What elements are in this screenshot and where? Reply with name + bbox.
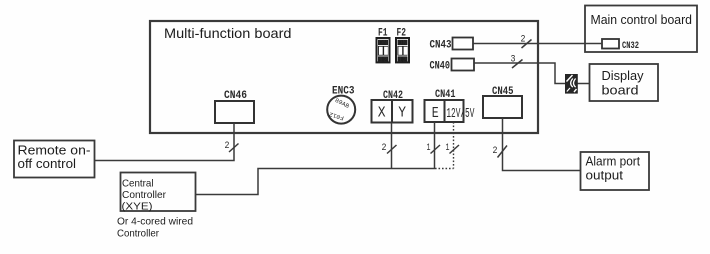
- wire CN46 to remote on-off control: [95, 123, 234, 161]
- wire count marker 2 on CN43 wire: [521, 35, 532, 49]
- svg-text:CN32: CN32: [622, 40, 639, 52]
- svg-text:12: 12: [398, 57, 407, 64]
- connector CN42: [372, 90, 413, 123]
- svg-text:2: 2: [521, 35, 526, 46]
- connector CN46: [215, 90, 254, 123]
- wire count marker 1 on 12V wire: [446, 143, 460, 154]
- svg-text:(XYE): (XYE): [122, 201, 153, 213]
- svg-text:Controller: Controller: [122, 189, 166, 201]
- svg-text:2: 2: [382, 143, 387, 154]
- svg-text:E: E: [432, 105, 439, 122]
- wire CN43 to CN32: [474, 43, 603, 45]
- svg-text:12V/5V: 12V/5V: [446, 107, 475, 122]
- dip switch F1: [377, 28, 390, 64]
- connector CN43: [430, 38, 474, 52]
- wire count marker 2 on CN46 wire: [225, 141, 239, 152]
- svg-text:Multi-function board: Multi-function board: [164, 25, 292, 41]
- alarm port output box: [581, 152, 650, 190]
- svg-text:1: 1: [446, 143, 450, 154]
- svg-text:12: 12: [379, 57, 388, 64]
- svg-text:Main control board: Main control board: [591, 13, 693, 27]
- svg-text:Central: Central: [122, 177, 154, 189]
- connector CN45: [483, 86, 522, 118]
- connector CN40: [430, 59, 475, 73]
- svg-text:X: X: [378, 104, 386, 121]
- wire count marker 3 on CN40 wire: [511, 55, 523, 69]
- display board: [590, 64, 659, 101]
- svg-text:CN43: CN43: [430, 40, 452, 52]
- multi-function board: [150, 21, 538, 133]
- svg-text:1: 1: [427, 143, 431, 154]
- wire CN41 12V down (dashed): [453, 122, 455, 169]
- wire count marker 2 on CN42 wire: [382, 143, 397, 154]
- wire count marker 1 on E wire: [427, 143, 441, 154]
- svg-text:Y: Y: [398, 104, 406, 121]
- svg-text:CN40: CN40: [430, 61, 451, 73]
- wire central controller to CN42/CN41 bus: [196, 169, 435, 195]
- dip switch F2: [396, 28, 409, 64]
- svg-text:ON: ON: [379, 40, 388, 47]
- svg-text:ON: ON: [398, 40, 407, 47]
- svg-text:Display: Display: [602, 68, 644, 83]
- svg-text:3: 3: [511, 55, 516, 66]
- or 4-cored wired controller note: [117, 215, 193, 239]
- wire CN42 down: [391, 123, 393, 169]
- central controller box: [121, 173, 196, 213]
- connector CN32: [602, 39, 639, 52]
- main control board: [585, 6, 697, 53]
- svg-text:2: 2: [493, 146, 498, 157]
- wire CN45 to alarm port output: [503, 118, 581, 171]
- connector CN41: [425, 89, 475, 122]
- svg-text:off control: off control: [18, 156, 77, 171]
- wire count marker 2 on CN45 wire: [493, 146, 508, 158]
- svg-text:output: output: [586, 169, 624, 183]
- rotary encoder ENC3: [327, 86, 355, 124]
- dashed bus segment to 12V wire: [435, 168, 454, 170]
- remote on-off control box: [14, 141, 95, 178]
- wire CN40 to display board: [475, 63, 590, 84]
- svg-text:board: board: [602, 83, 639, 98]
- svg-text:89AB: 89AB: [334, 97, 351, 110]
- svg-text:Or 4-cored wired: Or 4-cored wired: [117, 215, 193, 227]
- inline connector symbol on display wire: [566, 75, 578, 94]
- wire CN41 E down: [434, 122, 436, 169]
- svg-text:Controller: Controller: [117, 228, 159, 240]
- svg-text:2: 2: [225, 141, 230, 152]
- svg-text:Alarm port: Alarm port: [586, 155, 641, 169]
